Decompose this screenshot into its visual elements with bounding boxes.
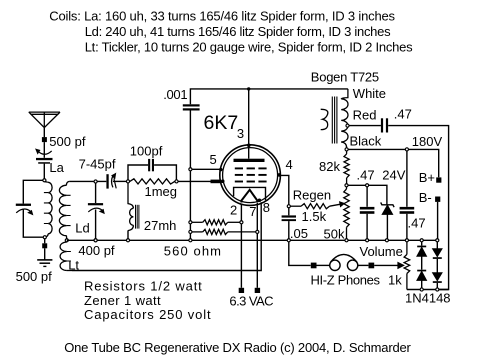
svg-text:400 pf: 400 pf xyxy=(78,243,115,258)
pin 8 dot xyxy=(258,199,262,203)
wire Ld tank top xyxy=(69,180,106,182)
wire .05 to rail xyxy=(288,221,290,239)
label 1.5k xyxy=(302,209,327,224)
label 180V xyxy=(412,134,443,149)
wire 400pf top lead xyxy=(95,183,97,203)
wire cap2 bottom lead xyxy=(406,214,408,239)
label pin 2 xyxy=(230,203,237,218)
node R2 right xyxy=(240,221,243,224)
heater terminal left xyxy=(239,288,244,293)
label Black xyxy=(350,134,382,149)
label pin 5 xyxy=(210,152,217,167)
antenna xyxy=(29,112,60,128)
label 50k xyxy=(324,227,345,242)
wire plate top run xyxy=(190,89,348,104)
wire tuning cap to bottom xyxy=(23,210,43,238)
node 400pf top xyxy=(94,180,97,183)
terminal B- square xyxy=(435,197,440,202)
label .47 filter xyxy=(408,215,426,230)
transformer primary winding xyxy=(321,109,328,129)
svg-text:500 pf: 500 pf xyxy=(16,269,53,284)
filament heater xyxy=(241,190,257,203)
node R3 right xyxy=(256,230,259,233)
title xyxy=(64,340,411,355)
wire 100pf loop left xyxy=(128,165,148,180)
label .47 bias xyxy=(357,167,375,182)
antenna terminal square xyxy=(42,137,47,142)
svg-text:6.3 VAC: 6.3 VAC xyxy=(229,293,273,308)
svg-text:27mh: 27mh xyxy=(144,218,177,233)
transformer T1 secondary winding xyxy=(341,99,348,148)
pin 3 dot xyxy=(247,144,251,148)
phone plug square right xyxy=(369,263,375,269)
wire to phones xyxy=(317,264,330,266)
label 1meg xyxy=(145,184,178,199)
note capacitors xyxy=(84,307,211,322)
label La xyxy=(49,160,64,175)
label Lt xyxy=(68,258,79,273)
wire phones to plug xyxy=(358,264,369,266)
wire cap1 top lead xyxy=(366,187,368,207)
capacitor C6 .001 xyxy=(183,104,200,110)
regen wiper arrow xyxy=(330,202,345,207)
svg-text:2: 2 xyxy=(230,203,237,218)
node pin5 bus xyxy=(189,168,192,171)
wire bias branch xyxy=(348,185,387,204)
wire antenna lead xyxy=(43,128,45,138)
svg-text:Coils: La: 160 uh, 33 turns 1: Coils: La: 160 uh, 33 turns 165/46 litz … xyxy=(49,9,395,24)
svg-text:Ld: 240 uh, 41 turns 165/46 li: Ld: 240 uh, 41 turns 165/46 litz Spider … xyxy=(85,24,391,39)
wire regen node down xyxy=(288,208,290,215)
svg-text:B+: B+ xyxy=(419,170,435,185)
label 400 pf xyxy=(78,243,115,258)
capacitor C8 .47 coupling xyxy=(381,118,388,132)
node 82k bottom xyxy=(345,184,348,187)
wire pin5 xyxy=(192,168,220,170)
resistor R6 50k pot xyxy=(344,187,349,239)
capacitor C4 trimmer 7-45pf xyxy=(106,174,116,189)
svg-text:White: White xyxy=(353,86,386,101)
inductor Lt tickler coil xyxy=(60,242,72,271)
rail node x190.4 xyxy=(189,239,192,242)
svg-text:8: 8 xyxy=(263,200,270,215)
node regen xyxy=(287,205,290,208)
label pin 8 xyxy=(263,200,270,215)
svg-text:Red: Red xyxy=(353,108,377,123)
wire B- down xyxy=(437,202,439,239)
resistor R4 1.5k regen xyxy=(291,204,330,209)
svg-text:Lt: Tickler, 10 turns 20 gauge: Lt: Tickler, 10 turns 20 gauge wire, Spi… xyxy=(85,40,413,55)
capacitor C7 .05 xyxy=(282,215,296,221)
svg-text:3: 3 xyxy=(237,126,244,141)
wire tank top left xyxy=(23,180,42,203)
wire terminal to C1 xyxy=(43,142,45,158)
label 6.3 VAC xyxy=(229,293,273,308)
inductor La coil xyxy=(44,182,52,237)
capacitor C1 500pf antenna variable xyxy=(36,149,53,164)
wire 100pf loop right xyxy=(154,165,176,180)
node diode rail 2 xyxy=(436,288,439,291)
wire diode bottom rail xyxy=(407,289,449,291)
label Red xyxy=(353,108,377,123)
svg-text:B-: B- xyxy=(419,190,432,205)
resistor R7 1k pot xyxy=(404,242,410,290)
svg-text:HI-Z Phones: HI-Z Phones xyxy=(311,272,381,287)
label .05 xyxy=(290,226,308,241)
diodes D2 D3 1N4148 column up xyxy=(417,242,427,288)
note coil specs line 2 xyxy=(85,24,391,39)
wire pin2 down xyxy=(240,204,242,288)
label 500 pf (antenna) xyxy=(49,134,86,149)
rail node x128 xyxy=(126,239,129,242)
label Volume xyxy=(360,244,403,259)
wire pin4 xyxy=(280,175,288,204)
label 560 ohm xyxy=(164,244,222,259)
label 27mh xyxy=(144,218,177,233)
wire transformer top lead xyxy=(341,89,348,99)
label White xyxy=(353,86,386,101)
svg-text:.001: .001 xyxy=(163,87,187,102)
svg-text:.47: .47 xyxy=(394,106,412,121)
zener D1 24V xyxy=(381,202,394,238)
svg-text:560 ohm: 560 ohm xyxy=(164,244,222,259)
label 100pf xyxy=(130,143,163,158)
svg-text:5: 5 xyxy=(210,152,217,167)
svg-text:Bogen T725: Bogen T725 xyxy=(311,70,379,85)
capacitor C3 400pf variable xyxy=(88,203,104,213)
node R2 left xyxy=(189,221,192,224)
label 82k xyxy=(319,159,340,174)
svg-text:7: 7 xyxy=(249,204,256,219)
svg-text:1N4148: 1N4148 xyxy=(405,291,451,306)
svg-text:Volume: Volume xyxy=(360,244,403,259)
node pin3 top wire xyxy=(247,87,250,90)
svg-text:100pf: 100pf xyxy=(130,143,163,158)
node tank bottom xyxy=(43,236,46,239)
pin 4 dot xyxy=(277,173,281,177)
cathode sleeve xyxy=(234,187,266,200)
svg-text:.47: .47 xyxy=(357,167,375,182)
wire common rail xyxy=(67,239,438,241)
capacitor C9 .47 xyxy=(360,207,375,214)
label .47 coupling xyxy=(394,106,412,121)
capacitor C2 500pf tuning variable xyxy=(16,204,33,215)
tube envelope U1 6K7 xyxy=(220,145,281,206)
rail node x421.7 xyxy=(420,239,423,242)
terminal square ground xyxy=(42,243,47,248)
svg-text:Resistors 1/2 watt: Resistors 1/2 watt xyxy=(84,279,203,294)
heater terminal right xyxy=(255,288,260,293)
svg-text:One Tube BC Regenerative DX Ra: One Tube BC Regenerative DX Radio (c) 20… xyxy=(64,340,411,355)
svg-text:7-45pf: 7-45pf xyxy=(79,156,116,171)
diodes D4 D5 1N4148 column down xyxy=(433,242,442,288)
node 180V cap2 xyxy=(405,148,408,151)
terminal B+ square xyxy=(436,177,441,182)
capacitor C10 .47 xyxy=(400,207,415,214)
wire trimmer to node xyxy=(113,180,126,182)
wire 1meg to grid xyxy=(178,180,210,182)
wire red tap xyxy=(349,125,381,127)
rail node x437.3 xyxy=(436,239,439,242)
wire cap2 top lead xyxy=(406,151,408,207)
wire to ground terminal xyxy=(44,239,46,243)
resistor R3 560 ohm xyxy=(192,229,256,234)
svg-text:24V: 24V xyxy=(382,167,405,182)
svg-text:82k: 82k xyxy=(319,159,340,174)
wire to ground xyxy=(44,248,46,259)
node 400pf bottom xyxy=(94,239,97,242)
label 500 pf (tuning) xyxy=(16,269,53,284)
svg-text:.05: .05 xyxy=(290,226,308,241)
label Ld xyxy=(75,221,89,236)
inductor L1 27mh choke xyxy=(128,183,139,239)
grid cap stub xyxy=(211,180,221,184)
label Bogen T725 xyxy=(311,70,379,85)
node R3 left xyxy=(189,230,192,233)
wire pin7 down xyxy=(256,203,258,288)
headphones HI-Z xyxy=(330,254,358,270)
svg-text:Capacitors 250 volt: Capacitors 250 volt xyxy=(84,307,211,322)
inductor Ld coil xyxy=(59,181,70,238)
label 1k xyxy=(388,272,402,287)
label Regen xyxy=(293,187,331,202)
node red tap xyxy=(346,124,349,127)
node rail left end xyxy=(65,239,68,242)
label B- xyxy=(419,190,432,205)
ground xyxy=(37,260,52,267)
label 7-45pf xyxy=(79,156,116,171)
plate bar xyxy=(234,159,265,162)
rail node x386.9 xyxy=(385,239,388,242)
svg-text:6K7: 6K7 xyxy=(204,112,239,134)
svg-text:50k: 50k xyxy=(324,227,345,242)
node diode rail 1 xyxy=(420,288,423,291)
wire 180V rail xyxy=(348,149,438,177)
note coil specs line 1 xyxy=(49,9,395,24)
wire 400pf bottom lead xyxy=(95,210,97,239)
note coil specs line 3 xyxy=(85,40,413,55)
label pin 7 xyxy=(249,204,256,219)
label HI-Z Phones xyxy=(311,272,381,287)
node grid circuit left xyxy=(126,180,129,183)
svg-text:La: La xyxy=(49,160,64,175)
grid dot xyxy=(221,179,225,183)
resistor R5 82k xyxy=(344,151,349,183)
label pin 3 xyxy=(237,126,244,141)
label 1N4148 xyxy=(405,291,451,306)
svg-text:180V: 180V xyxy=(412,134,443,149)
wire pin3 plate lead xyxy=(248,89,250,159)
label 24V xyxy=(382,167,405,182)
rail node x288.8 xyxy=(287,239,290,242)
note zener xyxy=(84,293,161,308)
svg-text:1.5k: 1.5k xyxy=(302,209,327,224)
rail node x367.1 xyxy=(366,239,369,242)
svg-text:.47: .47 xyxy=(408,215,426,230)
wire C1 to node xyxy=(43,164,45,179)
wire cap1 bottom lead xyxy=(366,214,368,239)
capacitor C5 100pf xyxy=(148,159,154,171)
rail node x406.9 xyxy=(405,239,408,242)
svg-text:1meg: 1meg xyxy=(145,184,178,199)
resistor R1 1meg xyxy=(130,179,175,184)
node antenna tank top xyxy=(43,179,46,182)
transformer core xyxy=(332,97,337,144)
node grid circuit right xyxy=(175,180,178,183)
resistor R2 560 ohm xyxy=(192,220,240,225)
label B+ xyxy=(419,170,435,185)
wire bus 190 vertical xyxy=(189,111,191,239)
svg-text:Regen: Regen xyxy=(293,187,331,202)
rail node x95.6 xyxy=(94,239,97,242)
svg-text:Zener 1 watt: Zener 1 watt xyxy=(84,293,161,308)
wire phones drop xyxy=(289,242,311,265)
note resistors xyxy=(84,279,203,294)
pin 5 dot xyxy=(219,168,222,171)
label .001 xyxy=(163,87,187,102)
svg-text:500 pf: 500 pf xyxy=(49,134,86,149)
rail node x346.5 xyxy=(345,239,348,242)
svg-text:4: 4 xyxy=(286,157,293,172)
volume wiper arrow xyxy=(374,262,404,268)
phone plug square left xyxy=(311,263,317,269)
svg-text:Ld: Ld xyxy=(75,221,89,236)
screen grid dashes xyxy=(235,168,267,181)
wire audio out right side xyxy=(388,126,448,290)
wire pin8 cathode down xyxy=(72,202,261,270)
node cap .47 branch xyxy=(366,184,369,187)
node black xyxy=(345,148,348,151)
svg-text:Black: Black xyxy=(350,134,382,149)
svg-text:1k: 1k xyxy=(388,272,402,287)
label 6K7 xyxy=(204,112,239,134)
label pin 4 xyxy=(286,157,293,172)
